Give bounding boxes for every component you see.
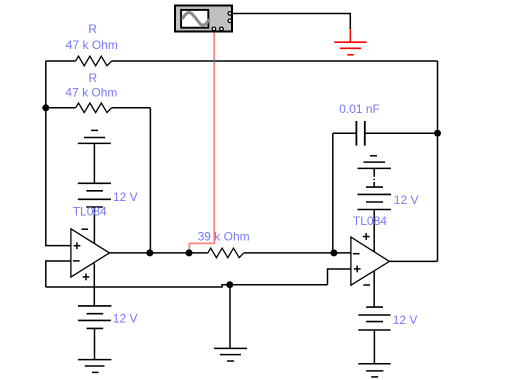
resistor R2 <box>76 103 112 113</box>
oscilloscope XSC1 waveform <box>182 12 209 25</box>
oscilloscope XSC1 screen <box>181 10 208 28</box>
ground GND4 (middle) <box>214 348 247 361</box>
ground GND1 (red) <box>334 42 366 55</box>
svg-text:12 V: 12 V <box>393 313 418 327</box>
wire U2 V- pin to battery V4 <box>373 271 375 307</box>
junction bottom ground node dot <box>226 281 233 288</box>
wire U2 noninverting input <box>328 269 351 285</box>
svg-text:39 k Ohm: 39 k Ohm <box>198 229 250 243</box>
svg-text:0.01 nF: 0.01 nF <box>339 102 380 116</box>
wire feedback bottom left segment <box>46 285 328 287</box>
wire U1 output to resistor R3 <box>109 252 207 254</box>
capacitor C1 left lead <box>333 132 356 134</box>
oscilloscope XSC1 body <box>175 6 232 32</box>
crossing artifact red/black <box>213 60 215 62</box>
junction right rail node dot <box>434 130 441 137</box>
svg-text:TL084: TL084 <box>73 205 107 219</box>
U2 pin 5 noninverting plus sign <box>354 266 361 273</box>
svg-text:47 k Ohm: 47 k Ohm <box>66 38 118 52</box>
svg-text:12 V: 12 V <box>394 193 419 207</box>
wire U2 output to right rail <box>389 260 437 262</box>
oscilloscope XSC1 terminal G (bottom left) <box>212 27 216 31</box>
op-amp U2 <box>351 237 390 285</box>
battery V4 <box>358 307 390 330</box>
U2 V+ pin plus sign <box>363 233 370 240</box>
op-amp U1 <box>71 229 110 277</box>
wire battery V3 to U2 V+ pin <box>373 210 375 252</box>
ground GND6 (bottom left) <box>78 360 112 373</box>
svg-text:TL084: TL084 <box>353 214 387 228</box>
wire U1 V+ pin to battery V2 <box>93 263 95 306</box>
wire R2 to node V vertical <box>149 108 151 253</box>
wire battery V1 to U1 V- pin <box>93 207 95 244</box>
junction U2 inverting node dot <box>330 249 337 256</box>
U1 V- pin minus sign <box>82 228 89 230</box>
capacitor C1 plates <box>356 121 364 146</box>
ground GND3 inverted (above battery V3) <box>358 156 392 169</box>
ground GND5 (bottom right) <box>358 364 390 377</box>
U2 V- pin minus sign <box>363 284 370 286</box>
battery V3 <box>358 187 392 209</box>
wire battery V2 to ground GND6 <box>94 328 96 359</box>
svg-text:12 V: 12 V <box>113 190 138 204</box>
wire R2 left lead <box>46 107 76 109</box>
oscilloscope XSC1 terminal B (right bottom) <box>228 19 232 23</box>
wire R1 right lead to right rail <box>112 60 438 62</box>
wire scope ground terminal to ground GND1 <box>233 14 350 30</box>
wire R3 to U2 inverting input <box>244 252 351 254</box>
oscilloscope XSC1 terminal T (bottom right) <box>220 27 224 31</box>
U2 pin 6 inverting minus sign <box>353 253 360 255</box>
wire GND3 to battery V3 (dash-dot) <box>373 168 375 187</box>
wire capacitor C1 left vertical <box>332 133 334 253</box>
junction scope probe node dot <box>186 249 193 256</box>
junction node A dot <box>42 104 49 111</box>
wire right rail vertical <box>437 61 439 261</box>
U1 V+ pin plus sign <box>83 274 90 281</box>
wire U1 inverting input <box>46 261 71 287</box>
wire battery V4 to ground GND5 <box>373 330 375 364</box>
junction node V dot <box>146 249 153 256</box>
wire left rail vertical (node A) <box>46 61 71 246</box>
battery V2 <box>78 306 112 329</box>
resistor R1 <box>76 56 112 66</box>
U1 pin 3 noninverting plus sign <box>74 242 81 249</box>
oscilloscope XSC1 terminal A (right top) <box>228 12 232 16</box>
battery V1 <box>78 183 111 207</box>
svg-text:R: R <box>88 22 97 36</box>
ground GND2 inverted (above battery V1) <box>78 130 111 143</box>
wire to ground GND4 <box>229 285 231 349</box>
resistor R3 <box>208 248 244 258</box>
svg-text:47 k Ohm: 47 k Ohm <box>65 85 117 99</box>
wire R2 right lead <box>112 107 151 109</box>
wire GND2 to battery V1 <box>93 143 95 183</box>
capacitor C1 right lead <box>366 132 438 134</box>
wire scope probe channel (red) to node V <box>189 33 214 250</box>
wire ground GND1 stem (red) <box>349 29 351 42</box>
U1 pin 2 inverting minus sign <box>73 260 80 262</box>
wire R1 left lead <box>46 60 76 62</box>
svg-text:R: R <box>89 71 98 85</box>
svg-text:12 V: 12 V <box>113 312 138 326</box>
